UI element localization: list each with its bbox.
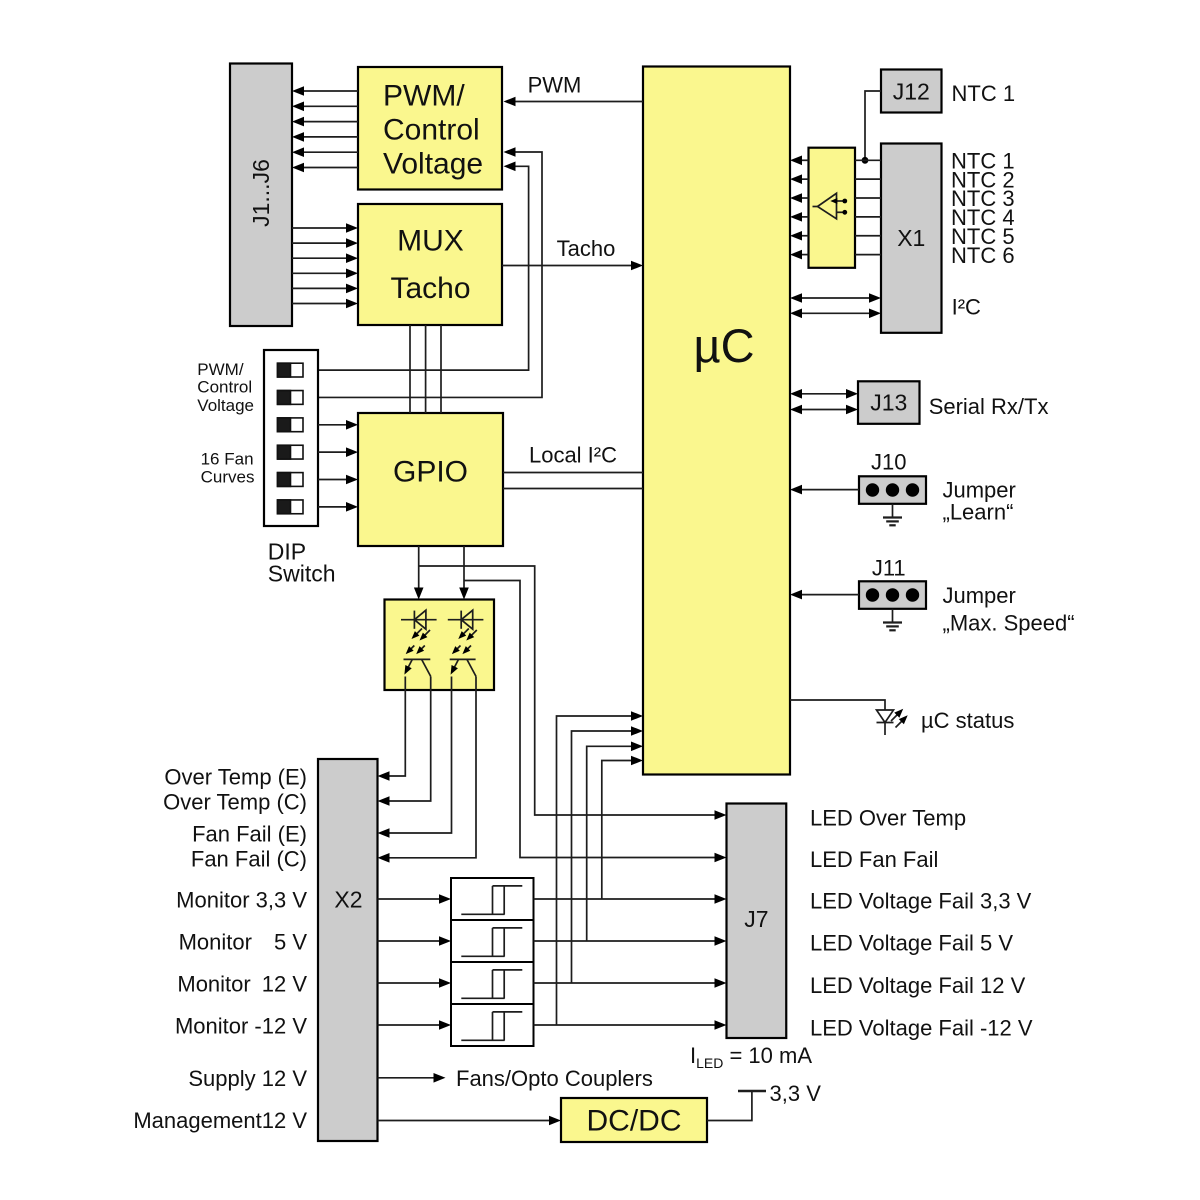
- svg-text:Monitor -12 V: Monitor -12 V: [175, 1014, 307, 1039]
- wire tacho input 2 J1...J6 to MUX: [292, 242, 348, 244]
- wire NTC 3 X1 to amplifier: [855, 197, 881, 199]
- wire J10 to uC: [802, 489, 859, 491]
- svg-text:J7: J7: [744, 906, 768, 932]
- svg-text:X1: X1: [897, 225, 925, 251]
- DIP switch S1 element 6: [278, 500, 304, 514]
- wire GPIO branch to J7 LED Fan Fail: [464, 581, 715, 858]
- wire X2 monitor 2 to comparator: [378, 940, 441, 942]
- wire DIP switch 6 to GPIO: [318, 506, 348, 508]
- comparator U8 with hysteresis: [451, 1004, 534, 1046]
- svg-text:Monitor 3,3 V: Monitor 3,3 V: [176, 887, 307, 912]
- wire optocoupler output to X2 Fan Fail (C): [389, 690, 476, 858]
- svg-text:J13: J13: [870, 390, 907, 416]
- svg-text:„Max. Speed“: „Max. Speed“: [943, 611, 1075, 636]
- wire optocoupler output to X2 Over Temp (E): [389, 690, 405, 776]
- wire Local I2C line 1 GPIO to uC: [503, 472, 643, 474]
- DIP switch S1 element 3: [278, 418, 304, 432]
- svg-text:Monitor 5 V: Monitor 5 V: [179, 929, 308, 954]
- wire MUX to GPIO bus line 3: [440, 325, 442, 413]
- block MUX Tacho U2: [358, 204, 502, 325]
- LED uC status: [877, 710, 894, 723]
- svg-text:DC/DC: DC/DC: [587, 1105, 682, 1138]
- svg-text:Control: Control: [197, 378, 252, 397]
- wire tacho input 1 J1...J6 to MUX: [292, 227, 348, 229]
- wire J12 to NTC 1 net: [865, 91, 881, 160]
- DIP switch S1 element 2: [278, 391, 304, 405]
- wire PWM/CV output 2 to J1...J6: [304, 105, 358, 107]
- svg-text:3,3 V: 3,3 V: [770, 1081, 822, 1106]
- comparator U6 with hysteresis: [451, 920, 534, 962]
- wire DC/DC output 3,3 V: [707, 1092, 752, 1121]
- wire tacho input 5 J1...J6 to MUX: [292, 287, 348, 289]
- jumper J10: [859, 476, 926, 504]
- power rail 3,3 V: [738, 1090, 766, 1093]
- junction NTC 1 node: [862, 157, 869, 164]
- wire tacho input 6 J1...J6 to MUX: [292, 303, 348, 305]
- wire comparator 3 output to uC: [572, 731, 633, 983]
- wire PWM/CV output 3 to J1...J6: [304, 121, 358, 123]
- wire NTC 1 X1 to amplifier: [855, 159, 881, 161]
- svg-text:J1...J6: J1...J6: [248, 159, 274, 227]
- svg-text:„Learn“: „Learn“: [943, 499, 1014, 524]
- wire PWM/CV output 5 to J1...J6: [304, 151, 358, 153]
- wire GPIO to optocoupler LED 1: [418, 546, 420, 589]
- svg-text:NTC 1: NTC 1: [952, 81, 1016, 106]
- wire DIP switch 2 to PWM/CV block: [318, 152, 542, 397]
- svg-text:X2: X2: [334, 886, 362, 912]
- svg-text:Voltage: Voltage: [197, 396, 254, 415]
- svg-text:Curves: Curves: [201, 467, 255, 486]
- svg-text:LED Voltage Fail 5 V: LED Voltage Fail 5 V: [810, 931, 1013, 956]
- wire X2 monitor 3 to comparator: [378, 982, 441, 984]
- wire comparator 2 output to J7: [534, 940, 716, 942]
- wire PWM/CV output 4 to J1...J6: [304, 136, 358, 138]
- wire tacho input 4 J1...J6 to MUX: [292, 272, 348, 274]
- svg-text:MUX: MUX: [397, 225, 464, 258]
- svg-text:Control: Control: [383, 114, 480, 147]
- wire Tacho from MUX to uC: [502, 265, 632, 267]
- wire PWM/CV output 6 to J1...J6: [304, 167, 358, 169]
- wire optocoupler output to X2 Fan Fail (E): [389, 690, 452, 833]
- svg-text:Jumper: Jumper: [943, 583, 1016, 608]
- jumper J11: [859, 581, 926, 609]
- wire NTC 1 amplifier to uC: [802, 159, 809, 161]
- wire NTC 4 X1 to amplifier: [855, 216, 881, 218]
- wire J11 to uC: [802, 594, 859, 596]
- wire Supply 12 V fans feed: [378, 1077, 435, 1079]
- wire PWM/CV output 1 to J1...J6: [304, 90, 358, 92]
- svg-text:Switch: Switch: [268, 560, 336, 586]
- svg-text:Management12 V: Management12 V: [133, 1108, 307, 1133]
- svg-text:LED Over Temp: LED Over Temp: [810, 806, 966, 831]
- svg-text:Local I²C: Local I²C: [529, 443, 617, 468]
- svg-text:PWM: PWM: [528, 73, 582, 98]
- comparator U5 with hysteresis: [451, 878, 534, 920]
- comparator symbol inside U9: [818, 193, 837, 219]
- svg-text:Monitor 12 V: Monitor 12 V: [177, 972, 307, 997]
- wire NTC 3 amplifier to uC: [802, 197, 809, 199]
- wire NTC 2 X1 to amplifier: [855, 178, 881, 180]
- wire comparator 1 output to J7: [534, 898, 716, 900]
- svg-text:Tacho: Tacho: [557, 236, 616, 261]
- svg-text:J11: J11: [872, 556, 906, 581]
- connector X2: [318, 759, 378, 1141]
- svg-text:Over Temp (E): Over Temp (E): [164, 764, 307, 789]
- svg-text:PWM/: PWM/: [197, 360, 244, 379]
- wire Local I2C line 2 GPIO to uC: [503, 488, 643, 490]
- optocoupler 1 LED: [401, 619, 437, 621]
- wire NTC 4 amplifier to uC: [802, 216, 809, 218]
- ground at J10: [892, 504, 894, 518]
- DIP switch S1 element 5: [278, 473, 304, 487]
- connector X1: [881, 144, 942, 333]
- svg-text:LED Voltage Fail 3,3 V: LED Voltage Fail 3,3 V: [810, 889, 1032, 914]
- wire comparator 1 output to uC: [602, 761, 632, 900]
- wire X2 monitor 1 to comparator: [378, 898, 441, 900]
- wire Management 12 V to DC/DC: [378, 1120, 551, 1122]
- block PWM/Control Voltage U1: [358, 67, 502, 190]
- wire MUX to GPIO bus line 2: [425, 325, 427, 413]
- wire comparator 3 output to J7: [534, 982, 716, 984]
- svg-text:Over Temp (C): Over Temp (C): [163, 789, 307, 814]
- DIP switch S1 body: [264, 350, 318, 526]
- wire optocoupler output to X2 Over Temp (C): [389, 690, 431, 801]
- wire NTC 6 X1 to amplifier: [855, 254, 881, 256]
- svg-text:LED Fan Fail: LED Fan Fail: [810, 847, 938, 872]
- svg-text:GPIO: GPIO: [393, 456, 468, 489]
- wire NTC 6 amplifier to uC: [802, 254, 809, 256]
- svg-text:µC status: µC status: [921, 708, 1014, 733]
- connector J1...J6: [230, 64, 292, 327]
- comparator U7 with hysteresis: [451, 962, 534, 1004]
- svg-text:J12: J12: [893, 79, 930, 105]
- wire comparator 4 output to J7: [534, 1024, 716, 1026]
- svg-text:Fan Fail (E): Fan Fail (E): [192, 821, 307, 846]
- svg-text:LED Voltage Fail -12 V: LED Voltage Fail -12 V: [810, 1016, 1033, 1041]
- wire DIP switch 5 to GPIO: [318, 479, 348, 481]
- wire DIP switch 1 to PWM/CV block: [318, 166, 529, 370]
- wire GPIO to optocoupler LED 2: [463, 546, 465, 589]
- svg-text:Voltage: Voltage: [383, 148, 483, 181]
- amplifier block U9: [809, 148, 856, 268]
- microcontroller uC: [643, 67, 790, 775]
- ground at J11: [892, 609, 894, 623]
- wire PWM from uC to PWM/CV block: [514, 101, 643, 103]
- wire DIP switch 3 to GPIO: [318, 424, 348, 426]
- svg-text:Serial Rx/Tx: Serial Rx/Tx: [929, 394, 1049, 419]
- connector J12: [881, 70, 942, 113]
- optocoupler 2 LED: [448, 619, 484, 621]
- svg-text:Supply 12 V: Supply 12 V: [188, 1066, 307, 1091]
- svg-text:16 Fan: 16 Fan: [201, 449, 254, 468]
- DIP switch S1 element 4: [278, 445, 304, 459]
- optocoupler 2 phototransistor: [450, 658, 476, 660]
- wire I2C SDA uC to X1: [800, 312, 871, 314]
- optocoupler 1 phototransistor: [404, 658, 431, 660]
- svg-text:LED Voltage Fail 12 V: LED Voltage Fail 12 V: [810, 973, 1026, 998]
- wire MUX to GPIO bus line 1: [409, 325, 411, 413]
- svg-text:Fans/Opto Couplers: Fans/Opto Couplers: [456, 1066, 653, 1091]
- svg-text:µC: µC: [693, 319, 754, 372]
- connector J7: [727, 804, 787, 1039]
- wire DIP switch 4 to GPIO: [318, 451, 348, 453]
- wire NTC 5 X1 to amplifier: [855, 235, 881, 237]
- wire NTC 2 amplifier to uC: [802, 178, 809, 180]
- wire serial Tx uC to J13: [800, 409, 848, 411]
- connector J13: [858, 381, 920, 424]
- optocoupler block U4: [385, 600, 495, 691]
- svg-text:Tacho: Tacho: [390, 272, 470, 305]
- wire X2 monitor 4 to comparator: [378, 1024, 441, 1026]
- svg-text:NTC 6: NTC 6: [951, 243, 1015, 268]
- block DC/DC converter: [561, 1098, 707, 1142]
- wire comparator 4 output to uC: [557, 716, 633, 1025]
- wire uC status output: [790, 700, 885, 710]
- svg-text:J10: J10: [871, 449, 906, 474]
- wire NTC 5 amplifier to uC: [802, 235, 809, 237]
- svg-text:I²C: I²C: [952, 295, 981, 320]
- svg-text:Fan Fail (C): Fan Fail (C): [191, 846, 307, 871]
- wire I2C SCL uC to X1: [800, 297, 871, 299]
- wire tacho input 3 J1...J6 to MUX: [292, 257, 348, 259]
- DIP switch S1 element 1: [278, 363, 304, 377]
- block GPIO U3: [358, 413, 503, 546]
- svg-text:PWM/: PWM/: [383, 80, 465, 113]
- wire serial Rx uC to J13: [800, 393, 848, 395]
- wire GPIO branch to J7 LED Over Temp: [419, 566, 715, 815]
- wire comparator 2 output to uC: [587, 746, 632, 941]
